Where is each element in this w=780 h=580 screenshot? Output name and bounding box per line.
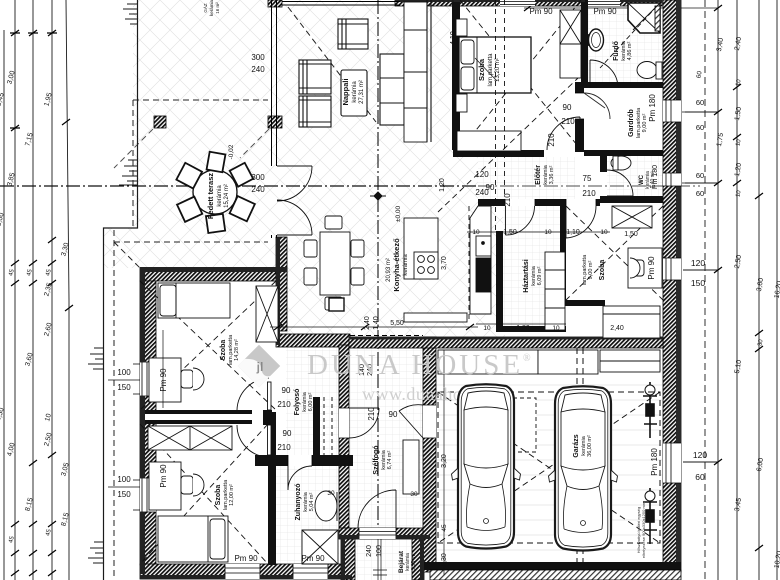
right wall outer texture strip [676, 0, 681, 572]
svg-text:20,93 m²: 20,93 m² [386, 258, 392, 282]
svg-text:150: 150 [117, 490, 131, 499]
wc south wall [600, 196, 663, 203]
wc west wall [600, 156, 607, 172]
window gap right 120/60 garage [663, 443, 681, 483]
terrace hip diagonal [114, 242, 140, 268]
svg-text:Garázs: Garázs [573, 434, 580, 457]
garage hot water unit dashed [506, 398, 536, 452]
bedroom1 south wall [453, 150, 544, 157]
svg-text:Gardrób: Gardrób [628, 109, 635, 137]
room diagonals dashed [140, 0, 663, 564]
exterior top wall [395, 0, 662, 6]
svg-text:Szoba: Szoba [599, 260, 606, 281]
svg-text:45: 45 [441, 524, 448, 532]
label folyoso [294, 389, 314, 416]
label furdo [613, 40, 633, 61]
svg-text:30: 30 [410, 491, 418, 498]
szelfogo south wall [339, 528, 430, 539]
basin bath (pedestal) [589, 29, 604, 51]
label gardrob [628, 107, 648, 138]
gardrob door arc [584, 93, 610, 119]
entry porch centre line [378, 539, 381, 580]
bottom apron hatched [430, 570, 681, 580]
svg-text:10: 10 [472, 229, 480, 236]
window gap right 60/60 lower [663, 173, 681, 186]
svg-text:GÁZ: GÁZ [202, 3, 208, 13]
label wc [639, 171, 656, 189]
cooktop [414, 252, 438, 279]
armchair top [338, 19, 368, 49]
desk szoba SE [628, 248, 662, 288]
dimension line R2 [736, 0, 738, 580]
szoba SE south wall [560, 300, 605, 306]
bedroom divider wall left wing [140, 410, 252, 424]
dimension line R1 [717, 0, 719, 580]
terrace chairs [176, 152, 255, 233]
dining chair top [325, 216, 342, 229]
szoba SE west wall [560, 206, 566, 300]
svg-text:Pm 90: Pm 90 [159, 464, 168, 488]
corridor east / szelfogo west wall [339, 345, 349, 528]
bed 2 (szoba 14,28) [158, 283, 230, 318]
terrace dashed bottom [114, 241, 268, 243]
dashed dimension axis R0 [704, 0, 706, 580]
svg-text:60: 60 [696, 98, 704, 107]
svg-text:Előtér: Előtér [535, 165, 542, 185]
door gap szoba SE [566, 199, 596, 206]
svg-text:2,40: 2,40 [364, 316, 371, 330]
fence tick group top [123, 4, 137, 24]
svg-text:13,20 m²: 13,20 m² [495, 58, 501, 82]
porch east wall [412, 539, 424, 580]
bench at bed foot [457, 131, 521, 151]
door post between bedroom doors [263, 410, 272, 425]
glazing column top [268, 0, 282, 7]
leader line [475, 58, 497, 81]
tick marks right [524, 5, 763, 551]
svg-text:300: 300 [251, 173, 265, 182]
bedroom wing bottom wall [140, 564, 352, 579]
sink unit [476, 236, 491, 256]
label zuhanyozo [295, 484, 315, 521]
wc door arc [607, 170, 633, 196]
svg-text:Szélfogó: Szélfogó [373, 445, 380, 474]
pillow 1b [461, 67, 474, 90]
svg-text:15,24 m²: 15,24 m² [224, 184, 230, 208]
garage north wall [349, 337, 663, 348]
dimension line L1 [14, 0, 16, 580]
svg-text:120: 120 [693, 450, 707, 460]
porch column 1 [154, 116, 166, 128]
svg-text:90: 90 [563, 103, 572, 112]
svg-text:6,09 m²: 6,09 m² [537, 267, 543, 286]
label szoba 12,00 [215, 479, 235, 510]
corridor north wall [276, 334, 350, 347]
svg-text:Pm 180: Pm 180 [650, 448, 659, 476]
svg-text:Szoba: Szoba [215, 485, 222, 506]
svg-text:36,00 m²: 36,00 m² [587, 435, 593, 457]
haztartasi door arc [506, 206, 535, 235]
living armchair 1 [299, 60, 331, 94]
fence tick group bottom [88, 542, 103, 563]
gardrob south wall [584, 150, 663, 156]
svg-text:Konyha-étkező: Konyha-étkező [392, 238, 401, 292]
svg-text:Fürdő: Fürdő [613, 41, 620, 61]
svg-text:6,00 m²: 6,00 m² [308, 393, 314, 412]
entry door arc [358, 490, 396, 528]
bedroom1 west wall (interior) [452, 0, 460, 150]
label szoba SE [582, 254, 606, 285]
garage bottom wall (solid) [423, 562, 681, 570]
svg-text:Pm 90: Pm 90 [647, 256, 656, 280]
hall opening dashed beam [350, 336, 423, 346]
bed 1 (szoba 13,20) [459, 37, 531, 93]
living west wall lower pier [276, 237, 287, 331]
svg-text:60: 60 [696, 189, 704, 198]
svg-text:210: 210 [367, 407, 376, 421]
svg-text:Pm 90: Pm 90 [593, 7, 617, 16]
svg-text:210: 210 [561, 117, 575, 126]
svg-text:Háztartási: Háztartási [523, 259, 530, 293]
terrace round table [193, 170, 237, 214]
svg-text:90: 90 [486, 183, 495, 192]
svg-text:100: 100 [117, 475, 131, 484]
svg-text:210: 210 [547, 133, 556, 147]
zuhanyozo north wall [255, 455, 353, 466]
svg-text:kerámia: kerámia [352, 81, 358, 103]
garage workbench [438, 350, 538, 374]
svg-text:60: 60 [696, 123, 704, 132]
svg-text:75: 75 [583, 174, 592, 183]
west glazing band [272, 0, 277, 238]
svg-text:90: 90 [389, 410, 398, 419]
kitchen counter left [404, 218, 438, 279]
corridor pillar block [493, 140, 504, 151]
bedroom1 east wall [581, 0, 588, 88]
hall cabinet [329, 298, 344, 311]
door gap zuhanyozo [288, 455, 312, 466]
svg-text:100: 100 [376, 545, 383, 557]
exterior right wall [663, 0, 681, 572]
window gap right 120/150 [663, 258, 681, 280]
label bejarat [398, 550, 417, 573]
svg-text:1,50: 1,50 [503, 229, 517, 236]
svg-text:10: 10 [544, 229, 552, 236]
haztartasi cabinet column [545, 252, 565, 330]
svg-text:210: 210 [277, 400, 291, 409]
window gap bottom 2 (Pm 90) [293, 564, 328, 579]
pillow 1a [461, 40, 474, 64]
label eloter [535, 164, 555, 185]
svg-text:kerámia: kerámia [209, 0, 214, 16]
zuhanyozo door arc [288, 466, 312, 490]
washbasin zuhanyozo [315, 491, 337, 521]
coffee table with label [341, 70, 367, 116]
kitchen south band [404, 313, 467, 322]
svg-text:90: 90 [282, 386, 291, 395]
top glazing band [282, 2, 400, 6]
szelfogo cabinet [403, 440, 419, 494]
sink black [476, 258, 491, 292]
svg-text:1,20: 1,20 [439, 178, 446, 192]
svg-text:elhelyezése 900x330x1250 mm: elhelyezése 900x330x1250 mm [641, 501, 646, 558]
kitchen east counter [470, 206, 491, 314]
svg-text:240: 240 [251, 65, 265, 74]
door gap szelfogo-corridor [339, 408, 349, 438]
bath west wall [575, 82, 584, 152]
svg-text:6,74 m²: 6,74 m² [387, 451, 393, 470]
svg-text:Pm 90: Pm 90 [529, 7, 553, 16]
right dash-dot axis continuation [478, 185, 700, 187]
exterior wall dark texture strips [140, 0, 663, 580]
svg-text:Nappali: Nappali [341, 78, 350, 105]
wardrobe szoba 14,28 [256, 286, 278, 342]
dimension line R4 [776, 0, 778, 580]
duct dashed lines [324, 397, 332, 466]
label szelfogo [373, 445, 393, 474]
corridor-szelfogo door arc [349, 408, 379, 438]
tiled floors light grid [276, 0, 663, 580]
interior dim lines [108, 0, 690, 575]
svg-text:10: 10 [552, 325, 560, 332]
szoba SE closet [603, 306, 660, 338]
szelfogo-garage door arc [399, 405, 423, 438]
svg-text:14,28 m²: 14,28 m² [234, 339, 240, 361]
garage floor faint stripes [436, 370, 662, 550]
blanket line [476, 37, 478, 93]
svg-text:1,30: 1,30 [441, 553, 448, 567]
eloter roof diagonal dashed [438, 78, 578, 212]
svg-text:kerámia: kerámia [403, 254, 409, 276]
door gap szelfogo-garage [423, 405, 436, 438]
svg-text:-0,02: -0,02 [228, 144, 235, 159]
chair szoba 14,28 [181, 368, 204, 390]
svg-text:90: 90 [283, 429, 292, 438]
label garazs [573, 434, 593, 457]
svg-text:5,04 m²: 5,04 m² [309, 493, 315, 512]
attic wall dashed pair [469, 0, 505, 320]
svg-text:4,10: 4,10 [450, 31, 457, 45]
svg-text:Pm 90: Pm 90 [159, 368, 168, 392]
chair szoba 12,00 [181, 474, 204, 496]
eloter south wall [478, 199, 600, 206]
svg-text:Pm 90: Pm 90 [301, 554, 325, 563]
svg-text:Pm 180: Pm 180 [648, 94, 657, 122]
nightstand bottom [456, 94, 467, 112]
horizontal dim connectors [683, 112, 718, 462]
fence tick group mid [119, 160, 137, 185]
wardrobe bedroom1 [560, 10, 581, 78]
svg-text:1,10: 1,10 [566, 229, 580, 236]
label konyha [386, 238, 409, 292]
bed szoba 12,00 [158, 516, 228, 562]
car 2 in garage [549, 386, 618, 550]
window gap west 100/150 lower [133, 478, 156, 512]
bath room diagonal [600, 6, 657, 68]
nightstand top [456, 19, 467, 36]
label szoba 14,28 [220, 334, 240, 365]
living armchair 2 [299, 96, 331, 127]
dining chairs right [351, 240, 364, 257]
plot boundary line [104, 0, 138, 580]
svg-text:5,50: 5,50 [390, 320, 404, 327]
window gap bottom 1 (Pm 90) [225, 564, 260, 579]
car 1 in garage [452, 384, 521, 548]
chair szoba SE [630, 258, 644, 278]
svg-text:DUNA HOUSE: DUNA HOUSE [307, 349, 523, 381]
porch west wall [341, 539, 355, 580]
porch column 2 [268, 116, 282, 128]
svg-text:3,36 m²: 3,36 m² [549, 166, 555, 185]
svg-text:240: 240 [251, 185, 265, 194]
roof overhang light crosshatch [103, 0, 505, 345]
svg-text:210: 210 [582, 189, 596, 198]
svg-text:®: ® [523, 353, 531, 364]
svg-text:120: 120 [691, 258, 705, 268]
horizontal dash-dot axis [0, 185, 478, 187]
bedroom wing north wall [140, 268, 287, 281]
corner note text [202, 0, 220, 16]
svg-text:Folyosó: Folyosó [294, 389, 301, 416]
dimension line L3 [51, 0, 53, 580]
hip from column to corner [114, 122, 276, 168]
svg-text:240: 240 [366, 545, 373, 557]
svg-text:300: 300 [251, 53, 265, 62]
svg-text:1,80: 1,80 [516, 325, 530, 332]
svg-text:Bejárat: Bejárat [398, 550, 405, 573]
bedroom wing west wall [140, 281, 156, 565]
bike 1 [643, 382, 657, 438]
szoba SE door arc [566, 206, 596, 238]
sideboard [380, 54, 404, 125]
szoba 12,00 door leaf and arc [268, 425, 272, 455]
svg-text:120: 120 [475, 170, 489, 179]
svg-text:Pm 180: Pm 180 [652, 165, 659, 189]
entry door gap [359, 528, 396, 539]
wardrobe south szoba 14,28 [148, 426, 232, 450]
label szoba 13,20 [477, 53, 501, 87]
svg-text:60: 60 [696, 171, 704, 180]
label haztartasi [523, 259, 543, 293]
shower zuhanyozo [302, 530, 338, 564]
zuhanyozo west wall [268, 412, 276, 565]
svg-text:210: 210 [277, 443, 291, 452]
roof overhang dashed left vertical [132, 100, 134, 228]
dimension line L2 [32, 0, 34, 580]
garage note tiny text [636, 501, 646, 558]
vertical dash-dot axis [377, 0, 379, 535]
wall line pair [427, 0, 431, 142]
window gap right 60/60 upper [663, 100, 681, 122]
svg-text:10: 10 [483, 325, 491, 332]
svg-text:10: 10 [600, 229, 608, 236]
dimension line L0 (far left) [3, 30, 5, 580]
svg-text:16 m²: 16 m² [215, 2, 220, 14]
svg-text:Zuhanyozó: Zuhanyozó [295, 484, 302, 521]
svg-text:±0,00: ±0,00 [395, 206, 402, 223]
rotated small dims [159, 31, 659, 567]
svg-text:3,20: 3,20 [441, 454, 448, 468]
dining chair bottom [325, 297, 342, 310]
svg-text:3,95 m²: 3,95 m² [411, 553, 417, 570]
svg-text:1,40: 1,40 [373, 316, 380, 330]
svg-text:Pm 90: Pm 90 [234, 554, 258, 563]
svg-text:9,00 m²: 9,00 m² [588, 261, 594, 280]
kitchen/haztartasi divider wall [496, 231, 503, 332]
svg-text:100: 100 [117, 368, 131, 377]
svg-text:12,00 m²: 12,00 m² [229, 484, 235, 506]
desk szoba 12,00 [149, 462, 181, 510]
svg-text:lam.parketta: lam.parketta [488, 53, 494, 87]
svg-text:Szoba: Szoba [220, 340, 227, 361]
garage dashed cross [438, 348, 660, 562]
svg-text:150: 150 [117, 383, 131, 392]
dimension line L4 (slightly slanted) [66, 0, 69, 580]
svg-text:Szoba: Szoba [477, 58, 486, 81]
dining chairs left [304, 240, 317, 257]
label fedett terasz [206, 173, 230, 220]
svg-text:150: 150 [691, 278, 705, 288]
terrace dashed left vertical lower [113, 230, 115, 580]
window gap west 100/150 upper [133, 362, 156, 396]
window gap top 1 (Pm 90) [500, 0, 535, 6]
shower corner bath (pentagon) [628, 3, 660, 33]
wc toilet [611, 156, 631, 170]
wardrobe szoba SE [612, 206, 652, 228]
toilet bath [637, 62, 657, 79]
szoba 14,28 door leaf and arc [268, 382, 272, 410]
axis marker diamond [370, 192, 386, 200]
door gap haztartasi [505, 199, 535, 206]
fence tick group lower [88, 348, 103, 369]
desk szoba 14,28 [149, 358, 181, 402]
label nappali [341, 78, 365, 105]
dining table [320, 232, 350, 295]
bike 2 [643, 488, 657, 544]
svg-text:jl: jl [256, 360, 264, 374]
roof dashed over living top [286, 4, 400, 6]
corridor east wall [313, 397, 320, 466]
door gap gardrob [575, 93, 584, 119]
roof hip diagonal living [288, 7, 376, 122]
tick marks left [10, 30, 73, 576]
svg-text:kerámia: kerámia [217, 185, 223, 207]
svg-text:30: 30 [327, 490, 335, 497]
garage shelf right [600, 350, 660, 372]
bath door arc [590, 60, 618, 88]
window gap top 2 (Pm 90) [585, 0, 620, 6]
haztartasi south wall [496, 326, 566, 332]
svg-text:210: 210 [503, 193, 512, 207]
bath south wall [578, 82, 663, 88]
roof overhang dashed top horizontal [133, 99, 268, 101]
svg-text:Fedett terasz: Fedett terasz [206, 173, 215, 220]
garage west wall [423, 337, 436, 572]
entry porch step marks [373, 570, 387, 575]
svg-text:1,50: 1,50 [624, 231, 638, 238]
svg-text:27,31 m²: 27,31 m² [359, 80, 365, 104]
svg-text:3,70: 3,70 [441, 256, 448, 270]
french door arcs terrace [277, 166, 312, 201]
bedroom1 door arc [547, 117, 580, 150]
watermark diamond logo [238, 345, 280, 387]
svg-text:2,40: 2,40 [610, 325, 624, 332]
window/door dimension texts [117, 7, 638, 563]
svg-text:4,86 m²: 4,86 m² [627, 42, 633, 61]
svg-text:60: 60 [695, 472, 705, 482]
dimension line R3 [758, 0, 760, 580]
tv cupboard [404, 2, 427, 142]
